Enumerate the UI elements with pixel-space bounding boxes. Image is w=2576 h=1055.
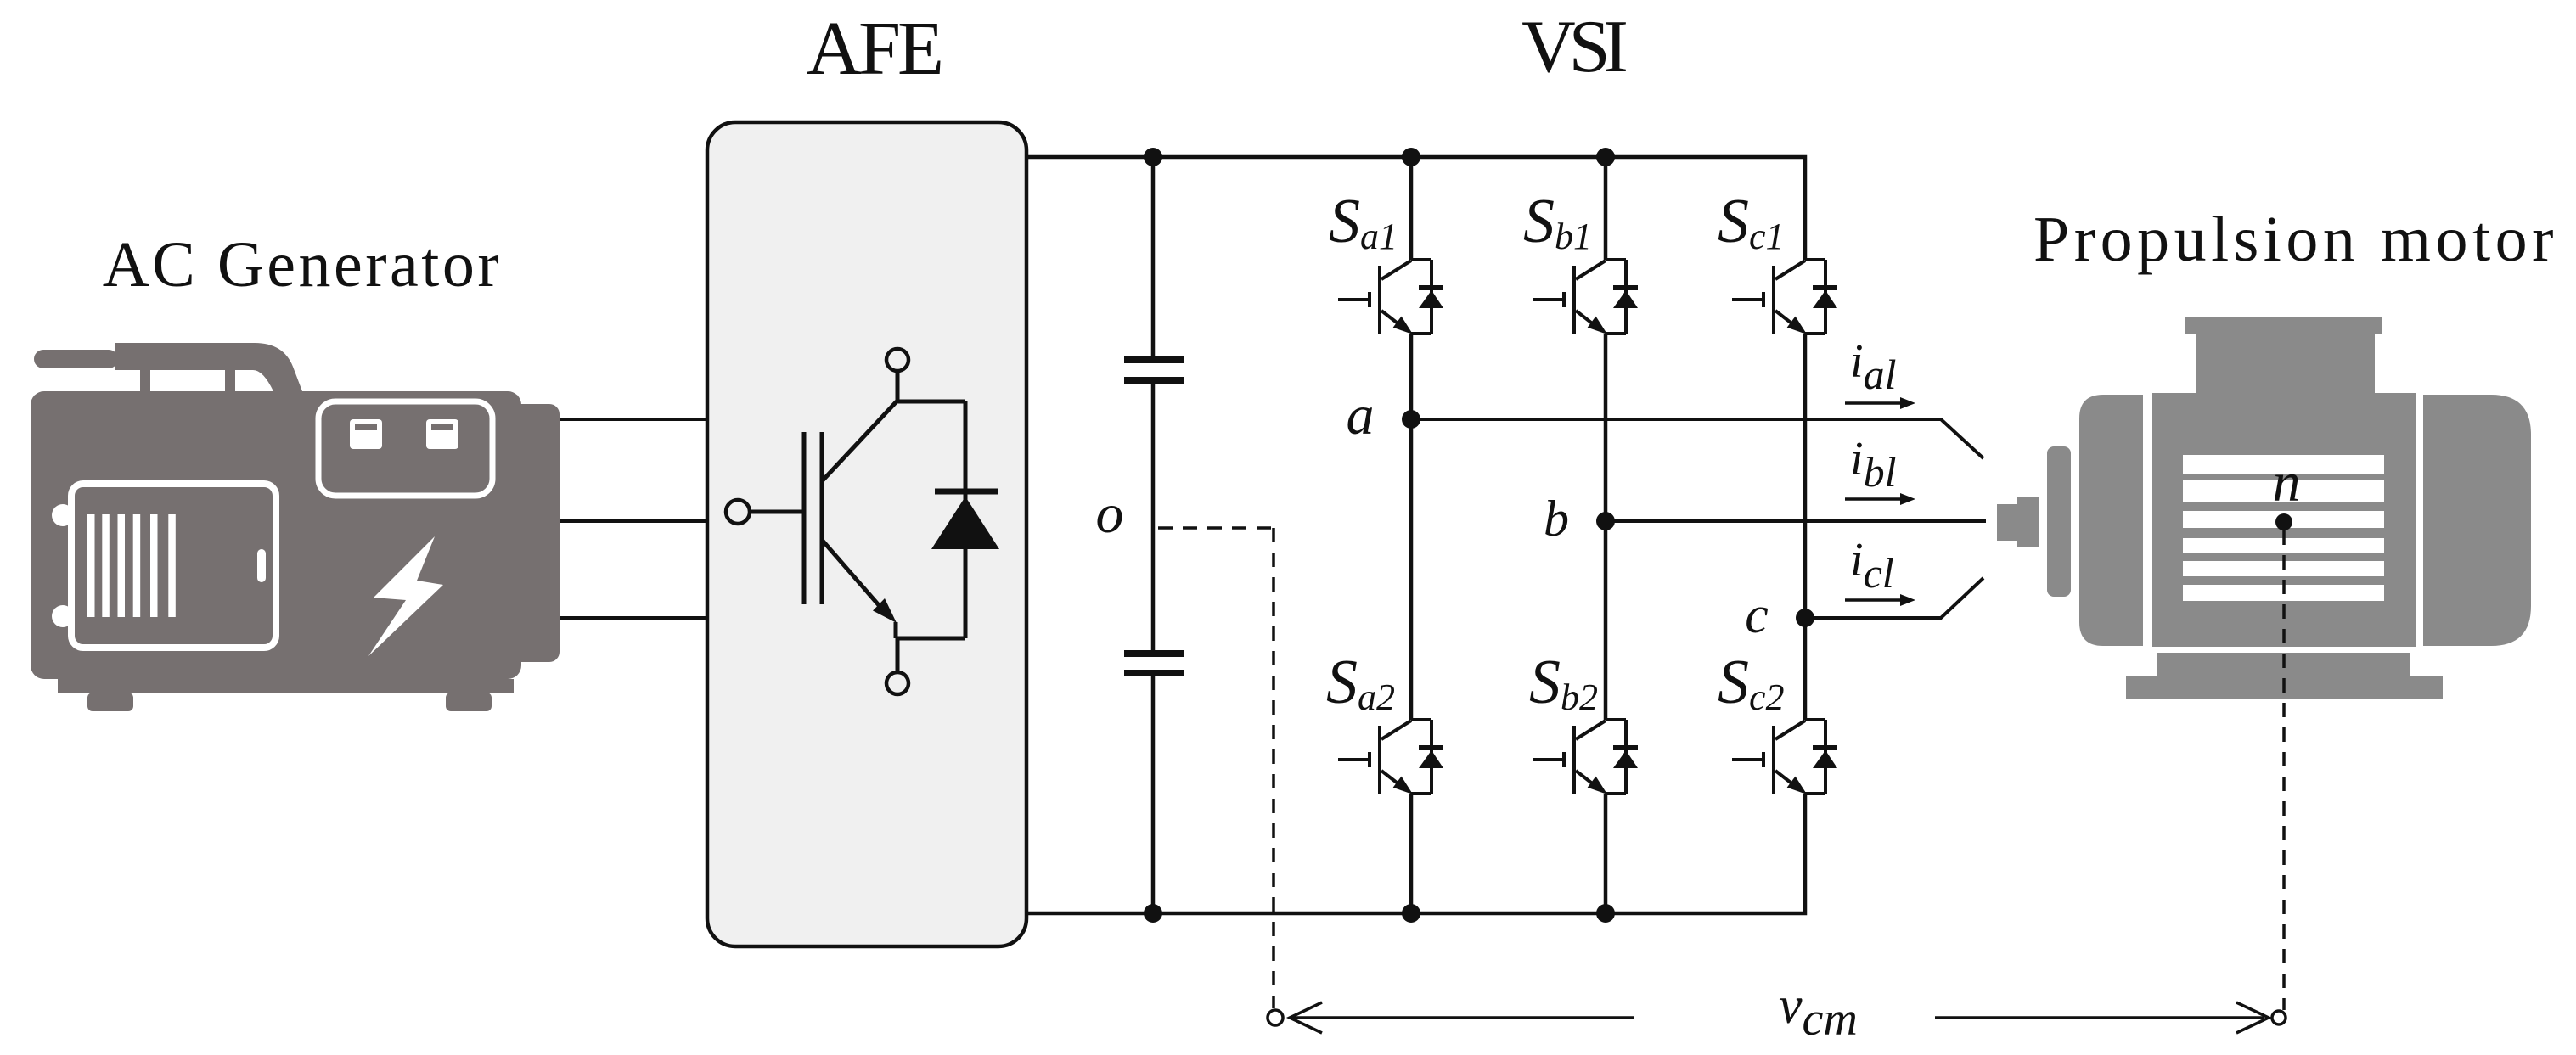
svg-text:Sa2: Sa2	[1326, 648, 1395, 718]
svg-text:n: n	[2273, 452, 2301, 513]
svg-text:VSI: VSI	[1521, 6, 1626, 88]
svg-text:ibl: ibl	[1850, 433, 1896, 496]
svg-text:Sa1: Sa1	[1329, 187, 1398, 257]
svg-text:Sb1: Sb1	[1523, 187, 1592, 257]
svg-text:Sc2: Sc2	[1718, 648, 1785, 718]
svg-text:AFE: AFE	[807, 7, 941, 91]
svg-text:ial: ial	[1850, 335, 1896, 398]
svg-text:a: a	[1347, 384, 1375, 446]
svg-text:Sc1: Sc1	[1718, 187, 1785, 257]
svg-text:c: c	[1745, 586, 1769, 644]
svg-text:b: b	[1544, 491, 1569, 547]
svg-text:o: o	[1096, 483, 1124, 545]
svg-text:vcm: vcm	[1779, 977, 1858, 1046]
svg-text:Sb2: Sb2	[1529, 648, 1598, 718]
svg-text:icl: icl	[1850, 534, 1894, 597]
svg-text:AC Generator: AC Generator	[103, 229, 502, 300]
svg-text:Propulsion motor: Propulsion motor	[2033, 204, 2558, 275]
